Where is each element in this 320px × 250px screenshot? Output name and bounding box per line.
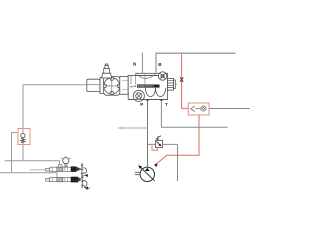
breather plug on top: [102, 64, 112, 78]
bolt bottom: [110, 91, 113, 94]
wire bypass connector: [12, 132, 19, 134]
svg-text:P: P: [140, 102, 143, 107]
wire left drop to check valve: [22, 85, 24, 161]
valve P line to pump: [147, 100, 149, 167]
collar: [100, 77, 104, 93]
svg-text:T: T: [165, 102, 168, 107]
red hose B to flow valve: [182, 54, 189, 109]
valve T line to tank: [161, 100, 227, 127]
label band: [137, 85, 160, 88]
pump outlet arrow to hose: [154, 164, 158, 167]
relief valve RV1 connects: [148, 144, 178, 181]
body top casting curve: [138, 74, 156, 78]
valve body bottom edge detail: [128, 99, 167, 101]
flow control V2 red box: [188, 103, 209, 115]
coupler X on red hose: [180, 77, 183, 82]
wire inlet line to valve: [23, 84, 87, 86]
sprayer1 bracket: [81, 163, 83, 180]
sprayer2 body: [46, 178, 71, 182]
red pilot hook under RV1: [152, 145, 157, 150]
sprayer2 hook arrow: [84, 187, 88, 189]
pump suction ticks: [135, 172, 140, 174]
pump outlet triangle: [145, 168, 150, 171]
relief valve RV1 spring: [156, 136, 161, 140]
flow control V2 internals: [191, 106, 206, 112]
bottom spool arcs: [145, 88, 165, 97]
svg-text:BADESTNOST: BADESTNOST: [138, 85, 155, 88]
red hose flow valve to pump outlet: [156, 115, 199, 164]
valve B port line to top rail: [156, 53, 236, 72]
body vertical details: [131, 73, 145, 84]
T port arrowhead: [160, 98, 163, 101]
bolt right: [117, 84, 120, 87]
monoblock valve: left cap: [87, 77, 105, 93]
check valve V1 symbol: [21, 133, 25, 142]
relief valve RV1 arrow: [157, 142, 160, 145]
wire out of flow valve: [209, 108, 250, 110]
top-right tilted boss: [158, 72, 166, 80]
bolt left: [103, 84, 106, 87]
pump body: [140, 167, 154, 181]
right port stack: [168, 78, 178, 90]
relief valve RV1 body: [155, 140, 162, 147]
suction stub arrow: [118, 127, 148, 129]
sprayer1 dark head: [71, 166, 77, 172]
P port arrowhead: [146, 98, 149, 101]
bonnet flange: [103, 77, 120, 96]
sprayer2 tail hook: [85, 187, 90, 189]
sprayer2 dark head: [71, 177, 78, 183]
wire sprayer1 feed: [5, 161, 60, 165]
wire bypass drop: [11, 133, 13, 173]
wire sprayer2 feed: [0, 173, 57, 178]
sprayer1 hook arrow: [84, 174, 88, 176]
sprayer2 bracket: [81, 175, 83, 189]
pump variable arrow: [140, 167, 154, 181]
bottom-left boss: [133, 90, 144, 101]
sprayer1 elbow fitting: [59, 165, 63, 168]
wire sprayer1 left stub: [30, 169, 46, 171]
valve N port line: [141, 53, 143, 74]
nameplate left marks: [130, 85, 136, 88]
sprayer1 hook: [82, 168, 86, 173]
sprayer2 hook: [83, 180, 87, 186]
check valve V1 red box: [18, 129, 30, 145]
svg-text:N: N: [133, 62, 136, 67]
sprayer1 body: [46, 167, 71, 171]
valve main body: [120, 73, 168, 99]
bolt top: [110, 77, 113, 80]
sprayer1 gauge: [61, 156, 71, 167]
